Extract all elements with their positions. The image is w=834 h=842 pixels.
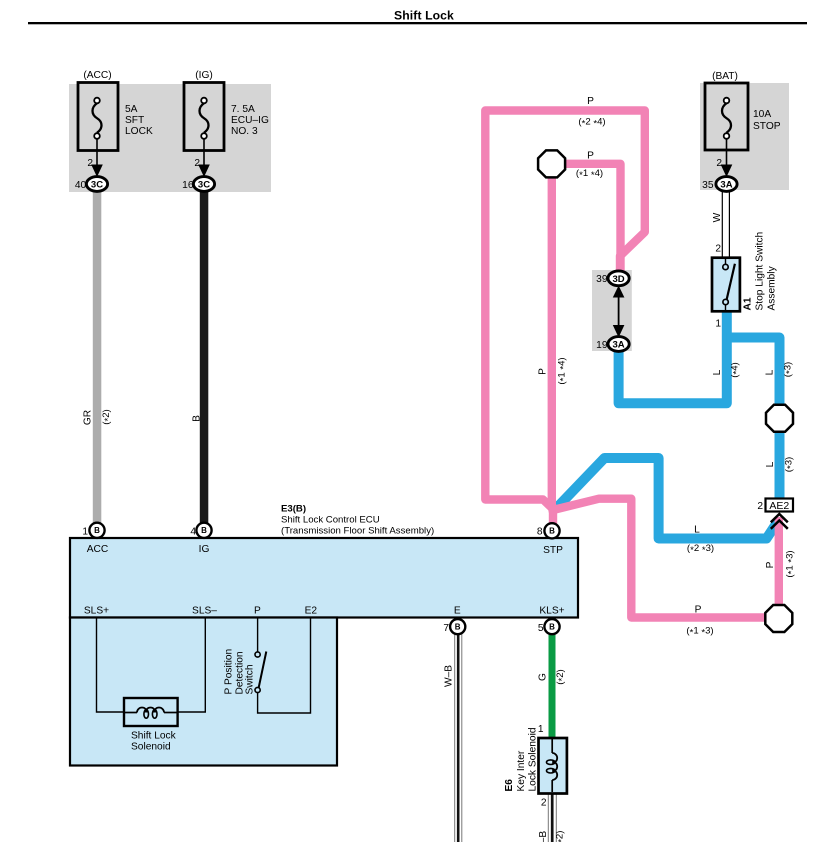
svg-text:Shift Lock Control ECU: Shift Lock Control ECU: [281, 515, 380, 526]
wire P terminal to P position detection switch: [257, 618, 259, 652]
ECU pin 1 circle B: [89, 523, 104, 538]
junction block 3A (gray background, right): [700, 83, 789, 190]
svg-text:3C: 3C: [198, 180, 210, 191]
svg-text:3C: 3C: [91, 180, 103, 191]
svg-text:W: W: [712, 212, 723, 222]
connector AE2: [766, 499, 794, 513]
arrow fuse STOP output: [721, 139, 733, 177]
svg-text:Stop Light Switch: Stop Light Switch: [755, 232, 766, 311]
wire G (green) ECU pin 5 KLS+ to key interlock solenoid: [549, 633, 556, 738]
wire L-B (double line) below key interlock solenoid: [548, 793, 556, 842]
svg-text:Assembly: Assembly: [767, 265, 778, 310]
octagon connector (pink, top middle): [538, 150, 565, 177]
svg-text:2: 2: [87, 158, 93, 169]
svg-text:W–B: W–B: [444, 665, 455, 687]
svg-text:1: 1: [82, 527, 88, 538]
svg-text:16: 16: [182, 180, 194, 191]
stop light switch assembly A1 box: [712, 258, 740, 312]
svg-text:(IG): (IG): [195, 70, 213, 81]
svg-text:2: 2: [194, 158, 200, 169]
svg-text:1: 1: [715, 319, 721, 330]
svg-text:LOCK: LOCK: [125, 126, 153, 137]
svg-text:SLS–: SLS–: [192, 606, 217, 617]
svg-text:7. 5A: 7. 5A: [231, 104, 255, 115]
svg-text:(BAT): (BAT): [712, 71, 738, 82]
svg-text:E2: E2: [305, 606, 318, 617]
svg-text:10A: 10A: [753, 109, 771, 120]
double arrow between 3D and 3A: [613, 286, 625, 338]
wire GR (gray) from fuse SFT LOCK to ECU pin 1: [93, 191, 102, 523]
svg-text:(Transmission Floor Shift Asse: (Transmission Floor Shift Assembly): [281, 526, 434, 537]
svg-text:P Position: P Position: [224, 649, 235, 695]
svg-text:L: L: [765, 461, 776, 467]
ECU pin 4 circle B: [196, 523, 211, 538]
connector 3D (pin 39): [608, 271, 629, 286]
connector 3D/3A gray background (middle right): [592, 270, 632, 351]
svg-text:2: 2: [757, 501, 763, 512]
wire W (white, double line) fuse STOP to stop light switch: [722, 190, 729, 258]
svg-text:SFT: SFT: [125, 115, 144, 126]
svg-text:B: B: [94, 526, 100, 535]
wire L (blue) stop light switch pin1 down, left to connector 3A(19): [619, 309, 727, 403]
junction block 3C (gray background, left): [69, 84, 271, 192]
svg-text:NO. 3: NO. 3: [231, 126, 258, 137]
ECU box E3(B) upper section: [70, 538, 578, 618]
wire P (pink) octagon branch to 3D connector: [565, 164, 621, 271]
arrow fuse ECU-IG output: [198, 139, 210, 177]
fuse 7.5A ECU-IG: [184, 83, 224, 151]
svg-text:L: L: [694, 525, 700, 536]
octagon connector (blue, right): [766, 405, 793, 432]
svg-text:AE2: AE2: [769, 500, 789, 512]
svg-text:8: 8: [537, 527, 543, 538]
svg-text:P: P: [765, 561, 776, 568]
svg-text:3A: 3A: [613, 340, 625, 351]
svg-text:B: B: [549, 623, 555, 632]
svg-text:Key Inter: Key Inter: [516, 750, 527, 791]
svg-text:3A: 3A: [720, 180, 732, 191]
ECU pin 5 circle B: [544, 619, 559, 634]
shift lock solenoid box and coil: [124, 698, 178, 726]
svg-text:39: 39: [596, 274, 608, 285]
svg-text:ECU–IG: ECU–IG: [231, 115, 269, 126]
svg-text:2: 2: [715, 244, 721, 255]
svg-text:B: B: [192, 415, 203, 422]
svg-text:P: P: [587, 96, 594, 107]
svg-text:E3(B): E3(B): [281, 504, 306, 515]
svg-text:P: P: [587, 151, 594, 162]
wire shift lock solenoid to SLS-: [178, 618, 206, 712]
wire switch to E2 terminal: [258, 618, 311, 713]
fuse 10A STOP: [705, 83, 748, 150]
fuse 5A SFT LOCK: [78, 83, 118, 151]
svg-text:ACC: ACC: [87, 544, 109, 555]
svg-text:L: L: [712, 369, 723, 375]
wire P (pink) big loop: from 3D connector up, top horizontal, left vertical down to junction: [485, 111, 645, 510]
svg-text:19: 19: [596, 340, 608, 351]
svg-text:GR: GR: [83, 410, 94, 425]
svg-text:7: 7: [443, 623, 449, 634]
svg-text:E: E: [454, 606, 461, 617]
svg-text:STP: STP: [543, 545, 563, 556]
svg-text:2: 2: [716, 158, 722, 169]
connector 3C (left, pin 40): [86, 177, 107, 192]
svg-text:KLS+: KLS+: [539, 606, 564, 617]
wire L (blue) from STP junction diagonal up right, down, to AE2 shield point: [558, 458, 778, 539]
svg-text:E6: E6: [504, 779, 515, 792]
octagon connector (pink, bottom right): [765, 605, 792, 632]
svg-text:3D: 3D: [613, 274, 625, 285]
svg-text:SLS+: SLS+: [84, 606, 109, 617]
connector 3A (pin 19): [608, 337, 629, 352]
svg-text:P: P: [695, 605, 702, 616]
transmission floor shift assembly lower box: [70, 618, 337, 766]
wire L (blue) branch to right, down to octagon connector: [727, 338, 780, 406]
svg-text:2: 2: [541, 798, 547, 809]
wire SLS+ to shift lock solenoid: [97, 618, 125, 712]
wire P (pink) AE2 shield down to pink octagon: [775, 517, 783, 605]
connector 3A (pin 35): [716, 177, 737, 192]
svg-text:40: 40: [75, 180, 87, 191]
svg-text:P: P: [254, 606, 261, 617]
svg-text:35: 35: [702, 180, 714, 191]
arrow fuse SFT LOCK output: [91, 139, 103, 177]
svg-text:(ACC): (ACC): [83, 70, 111, 81]
svg-text:L–B: L–B: [538, 831, 549, 842]
svg-text:P: P: [538, 368, 549, 375]
svg-text:IG: IG: [199, 544, 210, 555]
wire L (blue) octagon to connector AE2: [775, 432, 785, 499]
ECU pin 8 circle B: [544, 523, 559, 538]
svg-text:Solenoid: Solenoid: [131, 742, 171, 753]
key interlock solenoid E6 box and coil: [539, 738, 567, 794]
svg-text:G: G: [538, 673, 549, 681]
svg-text:A1: A1: [743, 297, 754, 310]
svg-text:B: B: [201, 526, 207, 535]
svg-text:1: 1: [538, 724, 544, 735]
shield chevrons below AE2: [771, 514, 788, 529]
svg-text:Shift Lock: Shift Lock: [131, 731, 177, 742]
ECU pin 7 circle B: [450, 619, 465, 634]
wire W-B (double line) from ECU pin 7 E down: [455, 634, 462, 842]
svg-text:L: L: [765, 369, 776, 375]
svg-text:Lock Solenoid: Lock Solenoid: [528, 727, 539, 791]
svg-text:B: B: [549, 527, 555, 536]
svg-text:B: B: [455, 623, 461, 632]
wire P (pink) octagon down to ECU pin 8 STP: [552, 178, 553, 524]
title Shift Lock: [28, 9, 807, 25]
svg-text:5: 5: [538, 623, 544, 634]
svg-text:Switch: Switch: [245, 664, 256, 694]
wire B (black) from fuse ECU-IG to ECU pin 4: [200, 191, 209, 523]
svg-text:4: 4: [190, 527, 196, 538]
svg-text:Shift Lock: Shift Lock: [394, 9, 454, 23]
wire P (pink) STP junction right, down, to pink octagon: [553, 499, 765, 618]
P position detection switch: [255, 652, 266, 693]
svg-text:5A: 5A: [125, 104, 138, 115]
svg-text:STOP: STOP: [753, 121, 781, 132]
connector 3C (pin 16): [193, 177, 214, 192]
